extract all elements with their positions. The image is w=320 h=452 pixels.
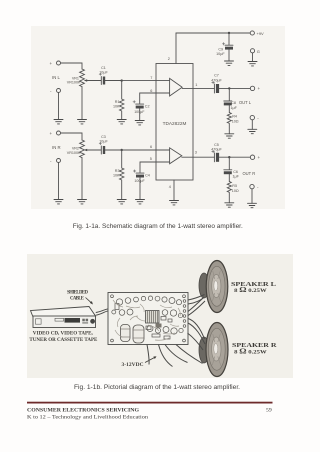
terminal G: [250, 49, 254, 53]
figure 2 scan background: [27, 254, 293, 378]
wire IN L - to ground: [58, 93, 60, 120]
svg-text:Fig. 1-1a. Schematic diagram o: Fig. 1-1a. Schematic diagram of the 1-wa…: [73, 223, 243, 230]
svg-text:Fig. 1-1b. Pictorial diagram o: Fig. 1-1b. Pictorial diagram of the 1-wa…: [74, 384, 240, 391]
svg-text:C5: C5: [214, 143, 219, 147]
resistor R3: [119, 150, 123, 200]
op-amp U1 TDA2822M body: [156, 64, 193, 181]
op-amp U1A triangle: [170, 78, 183, 96]
terminal IN L -: [57, 89, 61, 93]
wire OUT R - to ground: [251, 189, 253, 204]
wire junction to pin 7: [122, 80, 170, 82]
svg-text:7: 7: [150, 76, 152, 80]
svg-text:100μF: 100μF: [134, 179, 145, 183]
electrolytic capacitor large 1 on PCB: [121, 325, 131, 342]
wire supply rail: [176, 32, 250, 34]
PCB board: [108, 293, 188, 345]
svg-text:R3: R3: [115, 169, 120, 173]
wire pin 6 to C2: [140, 93, 170, 103]
svg-text:CABLE: CABLE: [70, 297, 84, 302]
speaker L cone: [212, 275, 221, 298]
op-amp U1B triangle: [170, 148, 182, 164]
wire pin 4 to ground: [173, 180, 175, 201]
svg-text:+: +: [258, 86, 261, 91]
terminal OUT L +: [250, 86, 254, 90]
speaker L ring: [209, 266, 225, 306]
ground under R1: [117, 120, 126, 124]
svg-text:K to 12 – Technology and Livel: K to 12 – Technology and Livelihood Educ…: [27, 415, 148, 421]
svg-text:IN L: IN L: [52, 75, 60, 80]
svg-text:IN R: IN R: [52, 145, 61, 150]
ground under C4: [136, 200, 145, 204]
svg-text:C8: C8: [231, 101, 236, 105]
node C1/R1 junction: [121, 79, 123, 81]
svg-text:8 Ω 0.25W: 8 Ω 0.25W: [234, 287, 266, 294]
wire VR2 bottom to ground: [81, 158, 83, 200]
ground under R3: [117, 200, 126, 204]
capacitor C4: [136, 172, 144, 174]
resistor R5: [227, 182, 231, 203]
terminal OUT R -: [250, 184, 254, 188]
ground under R4: [225, 134, 234, 138]
arrow from 3-12VDC: [145, 358, 155, 363]
speaker L magnet: [199, 273, 209, 298]
potentiometer VR1: [80, 69, 85, 87]
svg-text:C9: C9: [218, 47, 223, 51]
ground under OUT L -: [248, 129, 257, 133]
svg-text:1μF: 1μF: [233, 175, 240, 179]
speaker L frame: [206, 261, 228, 313]
ground under C9: [225, 61, 234, 65]
svg-text:VIDEO CD, VIDEO TAPE,: VIDEO CD, VIDEO TAPE,: [33, 330, 94, 336]
svg-text:3-12VDC: 3-12VDC: [122, 362, 144, 368]
svg-text:+: +: [50, 131, 53, 136]
svg-text:OUT R: OUT R: [243, 171, 256, 176]
ground under IN L -: [54, 120, 63, 124]
ground under G: [248, 62, 257, 66]
wire IN R + to VR2 top: [61, 133, 83, 140]
svg-text:R5: R5: [232, 184, 237, 188]
svg-text:8 Ω 0.25W: 8 Ω 0.25W: [234, 348, 266, 355]
PCB small components mid left: [112, 310, 116, 314]
svg-text:+: +: [258, 155, 261, 160]
terminal IN R -: [57, 159, 61, 163]
terminal IN L +: [57, 61, 61, 65]
potentiometer VR2: [80, 140, 85, 158]
power wire 3: [165, 345, 188, 363]
svg-text:4: 4: [169, 185, 171, 189]
speaker R spokes: [212, 334, 220, 366]
speaker R dust cap: [214, 344, 218, 354]
svg-text:R1: R1: [115, 100, 120, 104]
terminal +9V: [250, 31, 254, 35]
shielded cable wires: [96, 309, 109, 313]
speaker R cone: [212, 337, 221, 361]
svg-text:+9V: +9V: [257, 31, 265, 36]
power wire 2: [159, 345, 173, 367]
wire pin 2 to rail: [175, 33, 177, 64]
svg-text:C1: C1: [101, 66, 106, 70]
wire IN L + to VR1 top: [61, 63, 83, 69]
ground under C2: [135, 121, 144, 125]
svg-text:10μF: 10μF: [216, 52, 225, 56]
wire G to ground: [252, 53, 254, 62]
svg-text:2: 2: [168, 57, 170, 61]
player buttons: [82, 319, 85, 322]
svg-text:SHIELDED: SHIELDED: [67, 291, 89, 296]
wire OUT L - to ground: [251, 120, 253, 130]
speaker R magnet: [199, 337, 209, 363]
wire VR1 bottom to ground: [81, 87, 83, 120]
svg-text:6: 6: [150, 145, 152, 149]
svg-text:10Ω: 10Ω: [232, 189, 239, 193]
PCB mounting holes: [111, 295, 114, 298]
node C3/R3 junction: [121, 149, 123, 151]
svg-text:G: G: [257, 49, 260, 54]
svg-text:SPEAKER L: SPEAKER L: [231, 281, 276, 288]
player front face: [33, 316, 96, 328]
resistor R4: [227, 113, 231, 134]
speaker R ring: [208, 328, 225, 370]
terminal IN R +: [57, 131, 61, 135]
svg-text:1μF: 1μF: [231, 106, 238, 110]
wires PCB to speaker R: [188, 319, 205, 340]
svg-text:C2: C2: [145, 104, 150, 108]
ground under R5: [225, 203, 234, 207]
terminal OUT R +: [250, 155, 254, 159]
svg-text:C7: C7: [214, 74, 219, 78]
svg-text:C4: C4: [145, 173, 150, 177]
PCB dark component: [156, 324, 162, 328]
electrolytic capacitor large 2 on PCB: [133, 325, 144, 343]
wires PCB to speaker L: [188, 295, 205, 301]
polarity marks electrolytics: [99, 43, 225, 173]
svg-text:C6: C6: [233, 170, 238, 174]
ground under OUT R -: [248, 203, 257, 207]
PCB small components mid right: [162, 310, 168, 316]
svg-text:TDA2822M: TDA2822M: [163, 121, 187, 126]
svg-text:CONSUMER ELECTRONICS SERVICING: CONSUMER ELECTRONICS SERVICING: [27, 408, 140, 414]
player small panel: [55, 318, 64, 321]
svg-text:59: 59: [266, 407, 272, 413]
arrow to cable: [86, 298, 92, 304]
power wire 1: [147, 345, 149, 365]
svg-text:100μF: 100μF: [134, 110, 145, 114]
capacitor C1: [87, 77, 101, 85]
node out R junction: [228, 156, 230, 158]
PCB small components bottom: [147, 326, 153, 332]
wire IN R - to ground: [58, 163, 60, 200]
player knob: [90, 319, 95, 324]
player display window: [65, 318, 81, 323]
svg-text:OUT L: OUT L: [239, 100, 252, 105]
wire pin 3 to C5: [182, 156, 215, 158]
svg-text:1: 1: [195, 83, 197, 87]
speaker R frame: [206, 323, 228, 377]
node rail/C9 junction: [228, 32, 230, 34]
footer rule: [27, 402, 273, 404]
ground under IN R -: [54, 200, 63, 204]
svg-text:10K: 10K: [113, 174, 120, 178]
capacitor C8: [224, 88, 232, 101]
svg-text:VR100K: VR100K: [67, 81, 81, 85]
svg-text:+: +: [50, 61, 53, 66]
capacitor C3: [87, 146, 101, 154]
capacitor C6: [224, 157, 232, 170]
wire pin 5 to C4: [140, 162, 170, 172]
ground pin 4: [170, 201, 179, 205]
svg-text:6: 6: [150, 89, 152, 93]
PCB traces: [113, 300, 180, 340]
PCB small components row top: [116, 299, 122, 305]
ground under VR2: [78, 200, 87, 204]
speaker L spokes: [212, 271, 220, 303]
svg-text:R4: R4: [232, 115, 237, 119]
svg-text:3: 3: [195, 150, 197, 154]
wire pin 1 to C7: [182, 87, 214, 89]
svg-text:C3: C3: [101, 135, 106, 139]
figure 1 scan background: [31, 26, 285, 209]
node out L junction: [228, 87, 230, 89]
IC on PCB: [146, 311, 160, 324]
svg-text:10K: 10K: [113, 105, 120, 109]
capacitor C9: [225, 33, 233, 45]
terminal OUT L -: [250, 115, 254, 119]
wire junction to pin 6: [122, 149, 170, 151]
svg-text:10Ω: 10Ω: [232, 119, 239, 123]
PCB solder pads right: [183, 300, 186, 303]
capacitor C2: [136, 103, 144, 105]
svg-text:5: 5: [150, 157, 152, 161]
resistor R1: [119, 81, 123, 120]
ground under VR1: [78, 120, 87, 124]
svg-text:TUNER OR CASSETTE TAPE: TUNER OR CASSETTE TAPE: [29, 337, 97, 343]
player top face: [31, 307, 96, 318]
player vent left: [36, 319, 42, 324]
speaker L dust cap: [214, 281, 218, 291]
svg-text:VR100K: VR100K: [67, 151, 81, 155]
